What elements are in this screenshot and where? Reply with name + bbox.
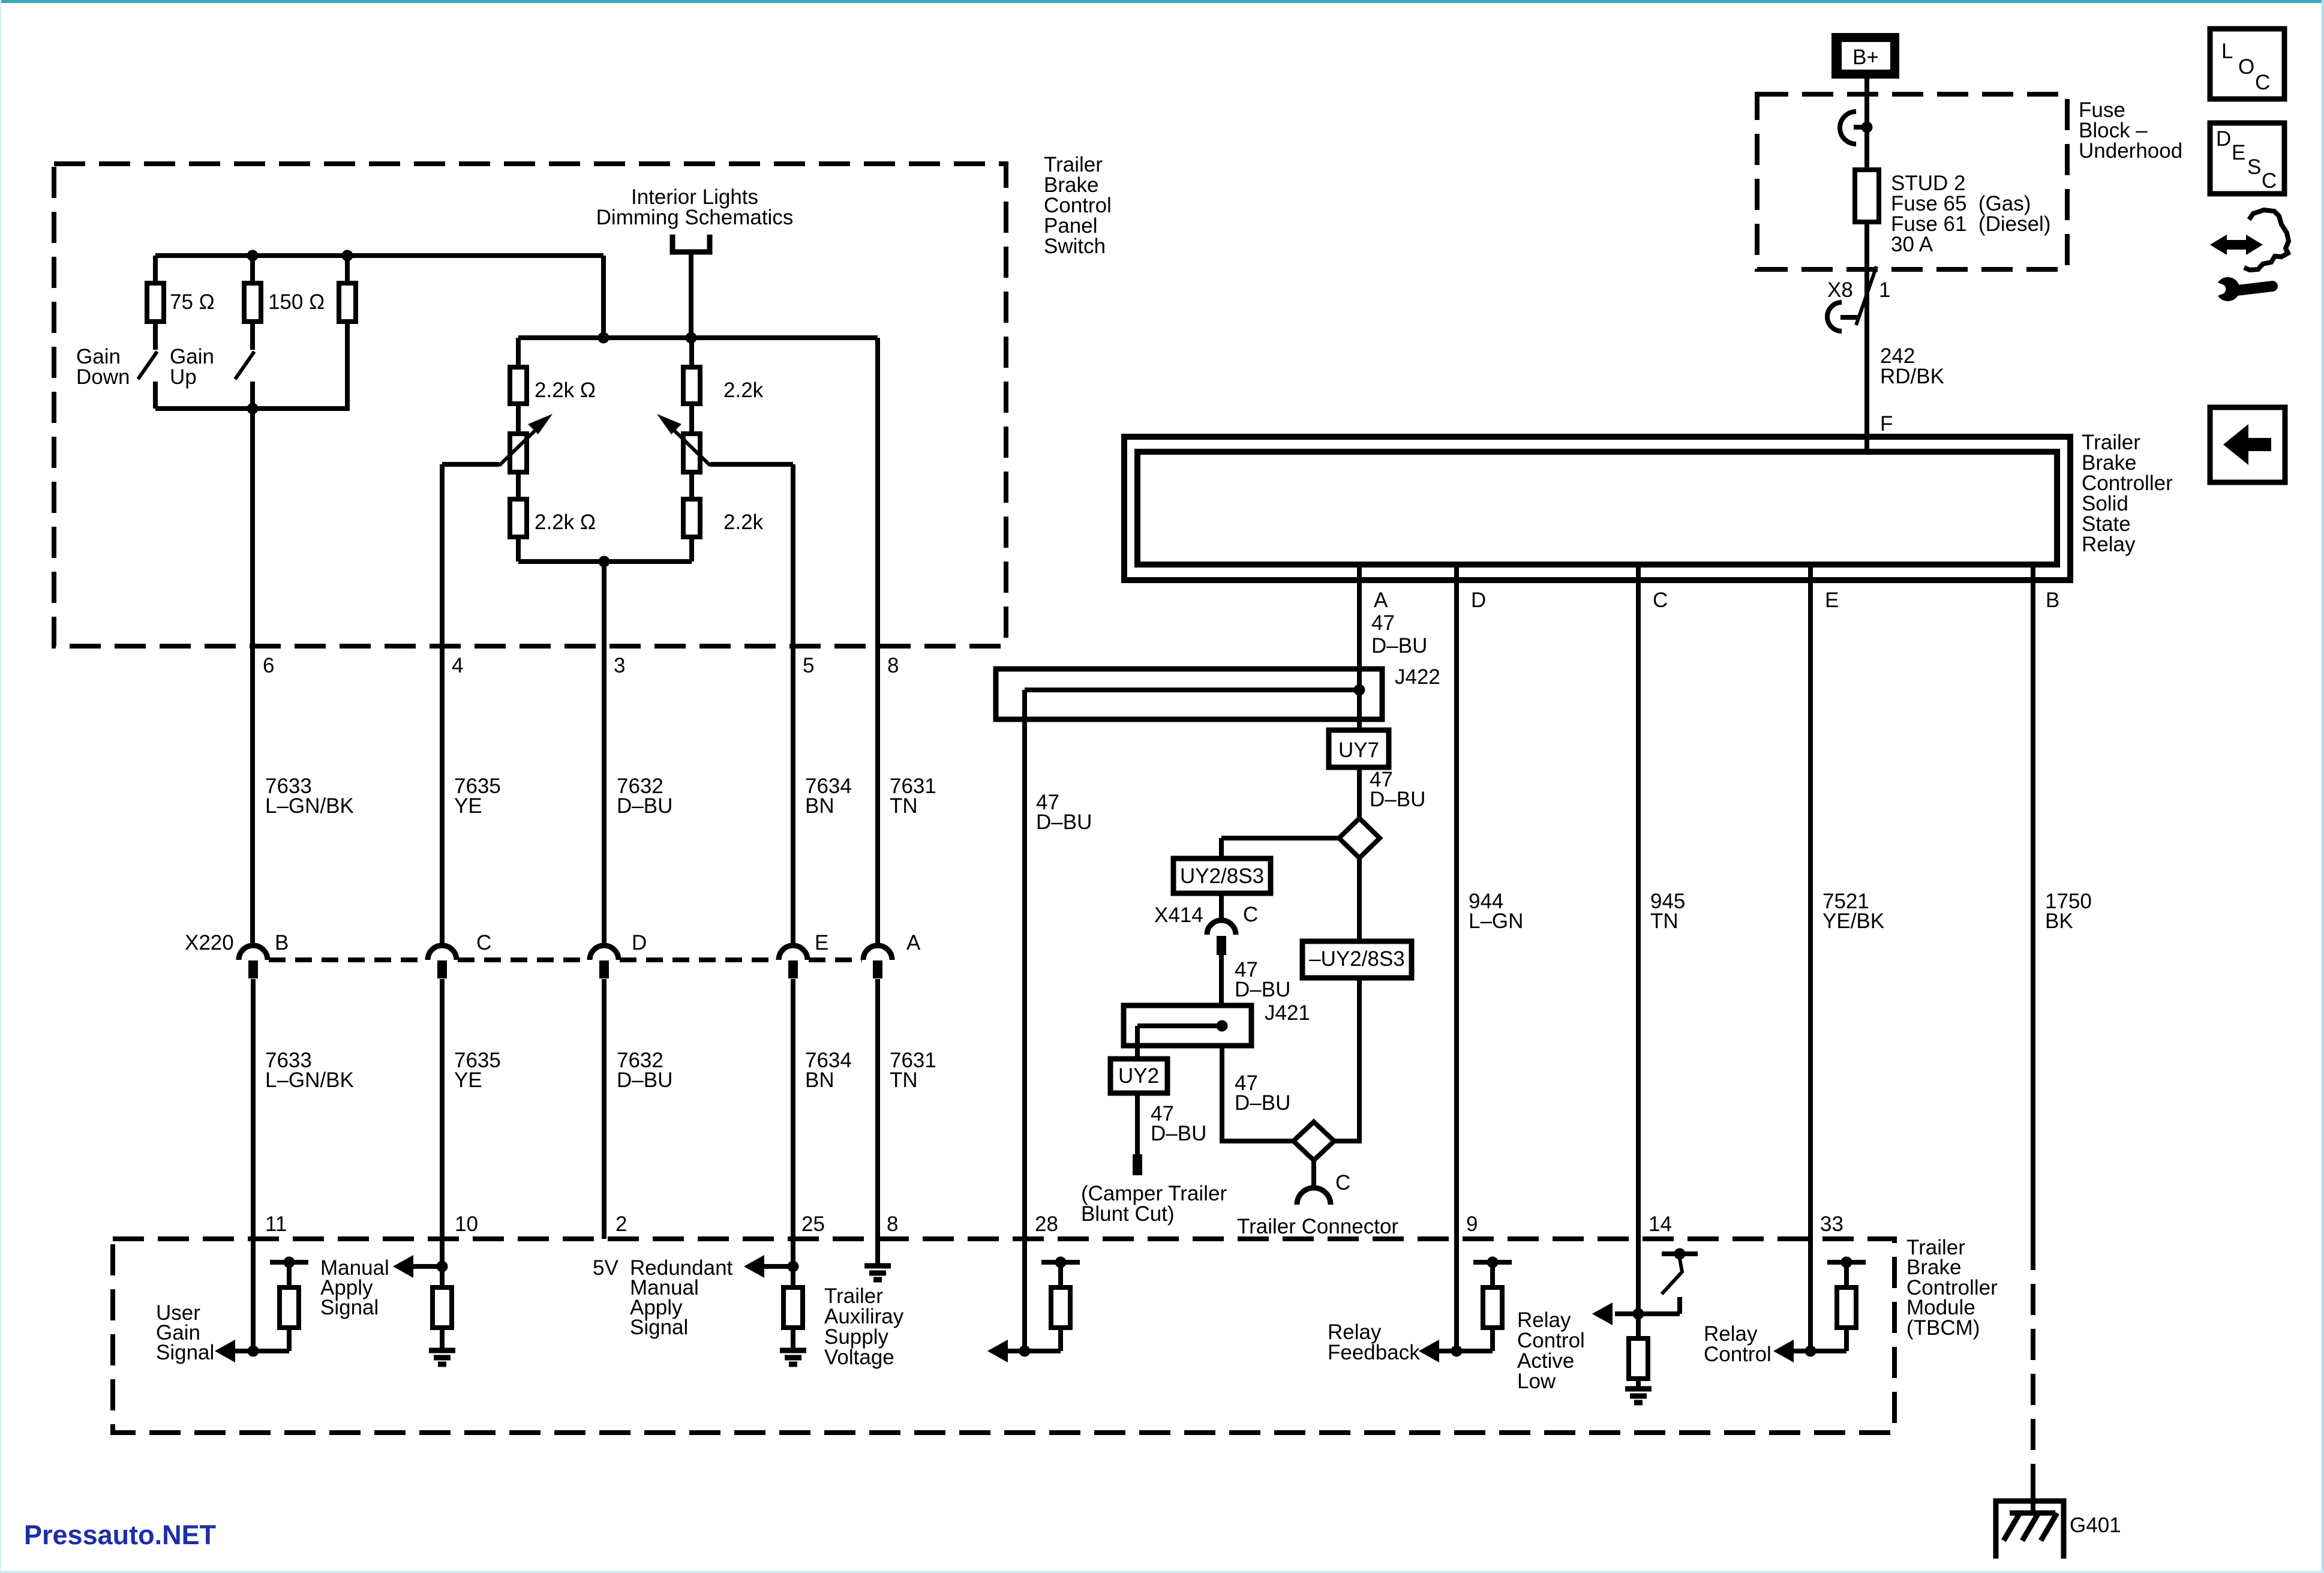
resistor pin 9 stub xyxy=(1483,1287,1502,1328)
bridge bottom wire xyxy=(518,559,692,564)
svg-text:D–BU: D–BU xyxy=(617,1068,672,1092)
svg-text:RD/BK: RD/BK xyxy=(1880,365,1944,388)
wire label 47 D-BU main xyxy=(1235,1071,1290,1115)
wire 3 xyxy=(602,562,606,945)
svg-text:5: 5 xyxy=(803,654,814,677)
wire label 7631 TN lower xyxy=(890,1049,936,1092)
icon LOC box xyxy=(2210,29,2284,99)
svg-text:J421: J421 xyxy=(1265,1001,1310,1025)
svg-text:TN: TN xyxy=(890,1068,918,1092)
bridge top wire xyxy=(518,335,878,340)
resistor third (unlabeled) xyxy=(339,256,356,409)
svg-text:UY2: UY2 xyxy=(1118,1064,1159,1088)
wire label 7521 YE/BK xyxy=(1822,890,1884,933)
ground pin 8 xyxy=(864,1266,891,1280)
node top-left xyxy=(247,250,259,262)
svg-text:8: 8 xyxy=(887,1212,898,1236)
svg-text:6: 6 xyxy=(263,654,274,677)
trailer connector pin C xyxy=(1237,1171,1398,1238)
node bridge bottom xyxy=(599,556,610,568)
svg-text:Switch: Switch xyxy=(1044,235,1106,258)
svg-text:L–GN/BK: L–GN/BK xyxy=(265,1068,354,1092)
X220 pin B xyxy=(239,931,289,978)
page border right xyxy=(2322,0,2324,1573)
ground pin 25 xyxy=(780,1350,806,1364)
wire E lower xyxy=(791,979,795,1266)
wire label 7633 L-GN/BK upper xyxy=(265,775,354,818)
svg-text:D: D xyxy=(1471,589,1486,612)
node top-mid xyxy=(342,250,353,262)
splice diamond lower xyxy=(1293,1122,1334,1160)
svg-text:D–BU: D–BU xyxy=(1235,978,1290,1001)
svg-text:Control: Control xyxy=(1704,1343,1771,1366)
relay pin E wire xyxy=(1808,565,1813,1351)
fuse block caption xyxy=(2079,98,2182,163)
splice diamond upper xyxy=(1339,818,1380,858)
svg-text:Dimming Schematics: Dimming Schematics xyxy=(596,206,794,229)
svg-text:Signal: Signal xyxy=(630,1316,688,1339)
svg-text:3: 3 xyxy=(614,654,625,677)
fuse labels xyxy=(1891,172,2050,256)
resistor 2.2k bottom-right xyxy=(683,472,764,562)
X220 pin A xyxy=(863,931,921,978)
resistor pin 28 stub xyxy=(1051,1287,1070,1328)
svg-text:10: 10 xyxy=(455,1212,478,1236)
svg-text:–UY2/8S3: –UY2/8S3 xyxy=(1309,947,1405,971)
svg-text:Relay: Relay xyxy=(2082,533,2136,556)
svg-text:2.2k: 2.2k xyxy=(723,379,764,402)
trailer aux arrow (pin 28) xyxy=(987,1257,1080,1363)
wire label 7635 YE lower xyxy=(454,1049,501,1092)
wire label 7631 TN upper xyxy=(890,775,936,818)
user gain signal branch (pin 11) xyxy=(215,1257,308,1363)
relay box inner xyxy=(1137,452,2057,565)
relay control active low branch (pin 14) xyxy=(1592,1248,1698,1326)
wire label 7635 YE upper xyxy=(454,775,501,818)
svg-text:2.2k: 2.2k xyxy=(723,511,764,534)
svg-text:S: S xyxy=(2247,155,2261,179)
svg-text:X414: X414 xyxy=(1154,903,1203,927)
svg-text:BN: BN xyxy=(805,1068,834,1092)
wire label 945 TN xyxy=(1650,890,1685,933)
page border bottom xyxy=(0,1571,2324,1573)
label relay control xyxy=(1704,1322,1771,1366)
wire label 47 D-BU below X414 xyxy=(1235,958,1290,1001)
svg-text:9: 9 xyxy=(1466,1212,1478,1236)
svg-text:J422: J422 xyxy=(1395,665,1440,689)
wire B dashed section xyxy=(2031,1239,2035,1481)
svg-text:D–BU: D–BU xyxy=(1371,634,1427,658)
splice pack J422 xyxy=(996,665,1440,719)
svg-text:Blunt Cut): Blunt Cut) xyxy=(1081,1202,1175,1226)
resistor pin 10 xyxy=(433,1266,452,1348)
resistor 150 ohm xyxy=(244,256,325,350)
ground pin 10 xyxy=(429,1350,455,1364)
wire A lower xyxy=(875,979,880,1266)
svg-text:D–BU: D–BU xyxy=(1235,1091,1290,1115)
wire 6 xyxy=(250,409,255,945)
svg-text:14: 14 xyxy=(1649,1212,1672,1236)
panel caption xyxy=(1044,153,1112,258)
battery B+ xyxy=(1831,33,1899,79)
wire bracket to bridge xyxy=(689,252,693,338)
icon left arrow box xyxy=(2210,407,2285,482)
svg-text:L–GN: L–GN xyxy=(1469,909,1523,933)
wire to bridge xyxy=(601,256,606,338)
svg-text:D–BU: D–BU xyxy=(1036,810,1092,834)
label camper trailer blunt cut xyxy=(1081,1182,1227,1226)
wire diamond to -UY2/8S3 xyxy=(1357,858,1362,941)
option box UY2/8S3 xyxy=(1173,858,1271,893)
resistor pin 33 stub xyxy=(1837,1287,1856,1328)
icon connector-view outline xyxy=(2244,210,2289,270)
svg-text:47: 47 xyxy=(1371,611,1395,635)
wire label 47 D-BU pin A xyxy=(1371,611,1427,658)
wire label 1750 BK xyxy=(2045,890,2092,933)
wire 4 xyxy=(440,464,445,945)
svg-text:BK: BK xyxy=(2045,909,2073,933)
icon connector-view double arrow xyxy=(2210,235,2263,255)
ground G401 xyxy=(1996,1481,2121,1559)
svg-text:150 Ω: 150 Ω xyxy=(268,290,325,314)
resistor 2.2k top-left xyxy=(510,338,596,434)
svg-text:O: O xyxy=(2238,55,2254,79)
wire J421 to lower diamond xyxy=(1222,1046,1293,1141)
resistor pin 14 xyxy=(1629,1314,1648,1386)
svg-text:B: B xyxy=(2046,589,2059,612)
svg-text:YE: YE xyxy=(454,794,482,818)
wire -UY2/8S3 to lower diamond xyxy=(1334,978,1359,1141)
relay pin D wire xyxy=(1454,565,1459,1351)
wire label 47 D-BU below UY2 xyxy=(1151,1102,1206,1145)
svg-text:D–BU: D–BU xyxy=(1151,1122,1206,1145)
ground pin 14 xyxy=(1625,1389,1652,1403)
option box UY2 xyxy=(1110,1059,1167,1093)
page border top xyxy=(0,0,2324,3)
svg-text:L–GN/BK: L–GN/BK xyxy=(265,794,354,818)
node bridge top left xyxy=(598,332,609,344)
svg-text:D: D xyxy=(2216,127,2231,151)
svg-text:2.2k Ω: 2.2k Ω xyxy=(535,511,596,534)
label trailer auxiliray supply voltage xyxy=(824,1284,904,1369)
X220 pin C xyxy=(428,931,491,978)
svg-text:E: E xyxy=(2232,141,2245,164)
svg-text:X220: X220 xyxy=(185,931,234,954)
wire label 7632 D-BU lower xyxy=(617,1049,672,1092)
svg-text:1: 1 xyxy=(1879,278,1890,302)
fuse block underhood dashed box xyxy=(1757,94,2067,269)
wire label 7632 D-BU upper xyxy=(617,775,672,818)
connector X414 pin C xyxy=(1154,903,1258,955)
relay box outer xyxy=(1124,437,2070,580)
stud terminal hook xyxy=(1840,112,1873,144)
gain bottom wire xyxy=(155,406,350,411)
svg-text:L: L xyxy=(2221,40,2233,63)
svg-text:BN: BN xyxy=(805,794,834,818)
wire label 7634 BN lower xyxy=(805,1049,852,1092)
svg-text:Signal: Signal xyxy=(320,1296,379,1319)
icon DESC box xyxy=(2210,123,2284,194)
interior lights bracket xyxy=(672,235,710,252)
wire 28 xyxy=(1022,719,1027,1351)
svg-text:Pressauto.NET: Pressauto.NET xyxy=(24,1520,216,1550)
wire UY2/8S3 to X414 xyxy=(1219,893,1224,921)
redundant apply arrow (pin 25) xyxy=(744,1255,799,1278)
node bottom xyxy=(247,403,259,415)
trailer brake control panel switch dashed box xyxy=(54,164,1006,646)
svg-text:X8: X8 xyxy=(1827,278,1853,302)
gain top wire xyxy=(155,253,603,258)
svg-text:75 Ω: 75 Ω xyxy=(170,290,215,314)
svg-text:11: 11 xyxy=(265,1212,287,1236)
TBCM caption xyxy=(1906,1236,1998,1340)
X220 pin E xyxy=(779,931,828,978)
label relay control active low xyxy=(1517,1308,1585,1393)
svg-text:Down: Down xyxy=(76,365,130,389)
svg-text:Trailer Connector: Trailer Connector xyxy=(1237,1215,1398,1238)
switch Gain Down xyxy=(76,345,157,409)
wire F from B+ to relay xyxy=(1864,79,1869,452)
relay control branch (pin 33) xyxy=(1773,1257,1866,1363)
wire C lower xyxy=(440,979,445,1266)
svg-text:Feedback: Feedback xyxy=(1328,1341,1420,1364)
svg-text:UY7: UY7 xyxy=(1338,739,1379,762)
svg-text:UY2/8S3: UY2/8S3 xyxy=(1180,864,1264,888)
resistor on pin 11 stub xyxy=(280,1287,299,1328)
svg-text:25: 25 xyxy=(801,1212,825,1236)
svg-text:C: C xyxy=(1653,589,1668,612)
blunt cut pin xyxy=(1133,1154,1142,1175)
svg-text:C: C xyxy=(1335,1171,1350,1194)
svg-text:2.2k Ω: 2.2k Ω xyxy=(535,379,596,402)
svg-text:Up: Up xyxy=(170,365,197,389)
wire label 944 L-GN xyxy=(1469,890,1523,933)
wiper wire left to pin4 xyxy=(442,462,499,467)
svg-text:Low: Low xyxy=(1517,1370,1556,1393)
svg-text:28: 28 xyxy=(1035,1212,1058,1236)
wiper wire right to pin5 xyxy=(710,462,793,467)
wire 28 label 47 D-BU xyxy=(1036,791,1092,834)
option box UY7 xyxy=(1329,730,1389,767)
wire X414 to J421 xyxy=(1219,955,1224,1005)
svg-text:A: A xyxy=(906,931,921,954)
splice pack J421 xyxy=(1124,1001,1310,1046)
svg-text:D–BU: D–BU xyxy=(1370,788,1425,811)
svg-text:G401: G401 xyxy=(2070,1514,2121,1537)
wire diamond to trailer connector xyxy=(1311,1160,1316,1188)
svg-text:F: F xyxy=(1880,412,1893,436)
resistor 2.2k top-right xyxy=(683,338,764,434)
svg-text:TN: TN xyxy=(1650,909,1679,933)
wire UY2 to blunt cut xyxy=(1135,1093,1140,1154)
svg-text:TN: TN xyxy=(890,794,918,818)
relay caption xyxy=(2082,431,2173,556)
svg-text:YE/BK: YE/BK xyxy=(1822,909,1884,933)
svg-text:2: 2 xyxy=(615,1212,627,1236)
svg-text:5V: 5V xyxy=(593,1256,618,1280)
X220 dashed connector line xyxy=(269,957,862,962)
svg-text:B+: B+ xyxy=(1852,46,1879,69)
svg-text:(TBCM): (TBCM) xyxy=(1906,1316,1980,1340)
wire 5 xyxy=(791,464,795,945)
svg-text:D: D xyxy=(632,931,647,954)
svg-text:B: B xyxy=(275,931,289,954)
wire label 7634 BN upper xyxy=(805,775,852,818)
potentiometer right xyxy=(657,414,710,472)
switch Gain Up xyxy=(170,345,254,409)
wire label 242 RD/BK xyxy=(1880,344,1944,388)
option box -UY2/8S3 xyxy=(1302,941,1412,978)
label redundant manual apply signal xyxy=(630,1256,733,1339)
wire 8 xyxy=(875,338,880,945)
svg-text:D–BU: D–BU xyxy=(617,794,672,818)
svg-text:30 A: 30 A xyxy=(1891,233,1933,256)
interior lights label xyxy=(596,185,794,229)
relay feedback branch (pin 9) xyxy=(1419,1257,1512,1363)
svg-text:Underhood: Underhood xyxy=(2079,139,2182,163)
resistor 75 ohm xyxy=(147,256,215,350)
TBCM dashed box xyxy=(113,1239,1894,1433)
svg-text:YE: YE xyxy=(454,1068,482,1092)
wire B lower xyxy=(251,979,256,1351)
svg-text:Signal: Signal xyxy=(156,1341,214,1364)
page border left xyxy=(0,0,1,1573)
svg-text:E: E xyxy=(815,931,828,954)
svg-text:4: 4 xyxy=(452,654,463,677)
svg-text:C: C xyxy=(2255,71,2270,94)
resistor pin 25 xyxy=(783,1266,803,1348)
svg-text:Voltage: Voltage xyxy=(824,1346,894,1369)
label manual apply signal xyxy=(320,1256,389,1319)
resistor 2.2k bottom-left xyxy=(510,472,596,562)
svg-text:C: C xyxy=(476,931,491,954)
connector X8 pin 1 xyxy=(1827,266,1890,331)
wire diamond to UY2/8S3 xyxy=(1221,838,1339,858)
X220 pin D xyxy=(590,931,647,978)
wire label 47 D-BU below UY7 xyxy=(1370,768,1425,811)
relay pin B wire xyxy=(2031,565,2035,1239)
svg-text:8: 8 xyxy=(887,654,899,677)
svg-text:A: A xyxy=(1374,589,1388,612)
svg-text:C: C xyxy=(1243,903,1258,926)
wire D lower xyxy=(602,979,606,1239)
wire label 7633 L-GN/BK lower xyxy=(265,1049,354,1092)
fuse STUD 2 xyxy=(1855,170,1879,222)
svg-text:C: C xyxy=(2262,169,2277,193)
manual apply arrow (pin 10) xyxy=(393,1255,448,1278)
label user gain signal xyxy=(156,1301,214,1364)
potentiometer left xyxy=(499,414,553,472)
relay pin C wire xyxy=(1636,565,1641,1314)
icon wrench xyxy=(2218,277,2272,301)
label relay feedback xyxy=(1328,1320,1420,1364)
wire J421 to UY2 xyxy=(1135,1046,1140,1059)
svg-text:33: 33 xyxy=(1820,1212,1843,1236)
relay pin A wire xyxy=(1357,565,1362,818)
svg-text:E: E xyxy=(1825,589,1839,612)
node bridge top right xyxy=(686,332,697,344)
